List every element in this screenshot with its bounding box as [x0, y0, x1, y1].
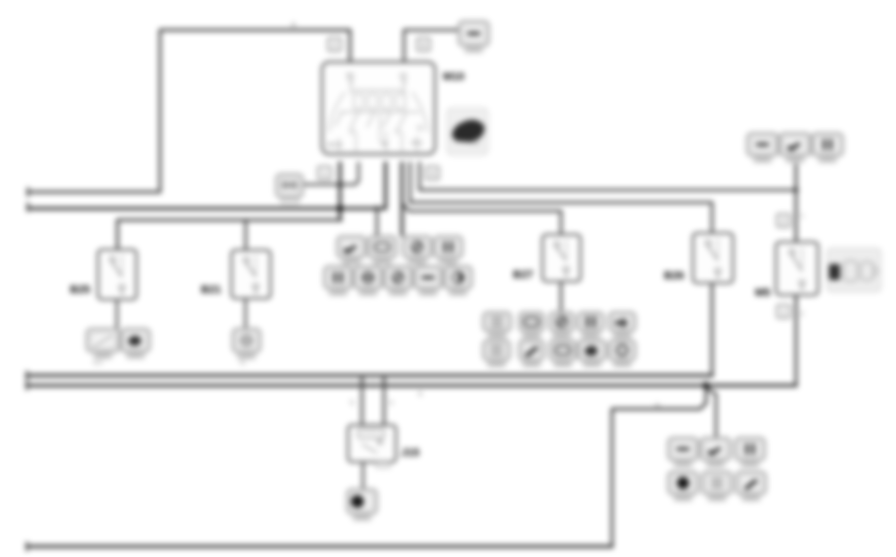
svg-text:B: B: [418, 391, 423, 398]
diagram ref icon B1: [324, 266, 352, 296]
connector icon C24: [276, 174, 303, 204]
switch B25: [98, 250, 137, 300]
svg-text:5: 5: [350, 400, 354, 407]
wire: ground return loop: [612, 388, 706, 547]
diagram ref icon A4: [434, 236, 463, 265]
wire: ECU pin drop x402 to icons row1: [401, 163, 404, 235]
connector pin square 4: [426, 167, 439, 180]
diagram ref icon B4: [414, 266, 442, 296]
diagram ref icon A1: [337, 236, 366, 265]
svg-text:B27: B27: [513, 269, 533, 281]
car position legend: [447, 108, 488, 155]
diagram ref icon D2: [519, 340, 544, 367]
diagram ref icon H3: [233, 329, 261, 360]
svg-text:M5: M5: [755, 287, 770, 299]
svg-text:6: 6: [421, 41, 426, 50]
wire: B26 down to bus A: [711, 283, 714, 376]
wire: M box down to bus B: [795, 295, 798, 386]
diagram ref icon D4: [578, 340, 606, 367]
wire: branch to B27: [402, 203, 561, 234]
diagram ref icon C5: [609, 312, 636, 338]
junction unit J15: [348, 425, 396, 462]
diagram ref icon F1: [668, 438, 698, 468]
svg-text:INT/A: INT/A: [327, 143, 342, 149]
svg-text:GV: GV: [93, 360, 103, 367]
svg-text:15: 15: [399, 73, 407, 80]
diagram ref icon H2: [121, 329, 150, 359]
svg-text:30: 30: [346, 73, 354, 80]
wire: ECU pin drop x340: [338, 163, 341, 220]
connector pin square M-bottom: [777, 305, 790, 318]
wire end tick: [26, 543, 28, 550]
diagram ref icon E2: [780, 133, 811, 163]
svg-text:A: A: [291, 20, 296, 29]
connector pin square 1: [318, 167, 331, 180]
wire: bus to J box pin 1: [361, 376, 364, 426]
location legend near M5: [827, 248, 881, 292]
wire: bus to J box pin 2: [383, 376, 386, 426]
junction: [337, 205, 344, 212]
connector pin square M-top: [777, 214, 790, 227]
diagram ref icon C4: [578, 312, 604, 338]
diagram ref icon C2: [519, 312, 544, 338]
svg-text:J15: J15: [401, 447, 419, 459]
diagram ref icon G1: [668, 472, 698, 502]
junction: [337, 182, 343, 188]
wire: to relay icon top: [404, 30, 458, 62]
diagram ref icon A2: [368, 236, 397, 265]
diagram ref icon C3: [550, 312, 575, 338]
relay icon reference: [459, 21, 490, 53]
wire: ECU pin to M feed bus y190: [420, 163, 798, 190]
junction: [702, 382, 709, 389]
svg-text:B21: B21: [201, 284, 221, 296]
wire end tick: [26, 372, 28, 379]
svg-text:1: 1: [781, 308, 786, 317]
diagram ref icon B5: [444, 266, 472, 296]
svg-text:M10: M10: [443, 71, 464, 83]
wire: ECU pin to connector icon: [302, 163, 359, 185]
switch B27: [543, 235, 581, 282]
wire: J box to ground: [362, 462, 364, 488]
wire: B21 to icon: [244, 298, 246, 329]
svg-text:B26: B26: [664, 270, 684, 282]
wire: bus A y375: [27, 374, 712, 377]
diagram ref icon G2: [702, 472, 732, 502]
diagram ref icon B2: [354, 266, 382, 296]
wire end tick: [26, 382, 28, 389]
ground point icon G12: [347, 489, 377, 521]
wire: battery feed top-left loop: [28, 30, 350, 192]
switch B26: [693, 233, 733, 283]
wire: bus branch down to icons row1: [376, 207, 379, 236]
motor assembly M5: [776, 242, 818, 295]
wire end tick: [27, 204, 29, 211]
svg-text:4: 4: [430, 170, 435, 179]
svg-text:30/1: 30/1: [411, 141, 423, 147]
junction: [793, 187, 798, 192]
wire: icons to M box: [795, 165, 798, 242]
svg-text:50: 50: [381, 142, 388, 148]
diagram ref icon D1: [483, 340, 510, 367]
wire: sub-bus y220 to B25/B21: [118, 220, 342, 250]
wire: bus B y385: [27, 384, 796, 387]
svg-text:2: 2: [800, 311, 804, 318]
wire: drop to B21: [244, 220, 247, 250]
svg-text:B25: B25: [70, 284, 90, 296]
control unit M10 (ignition switch unit): [322, 62, 435, 154]
wire: junction down to icon group: [706, 388, 716, 437]
wire: long left bus y208: [28, 163, 386, 209]
diagram ref icon H1: [87, 329, 120, 359]
wire: B27 to icon rows: [560, 281, 563, 311]
svg-text:2: 2: [332, 41, 337, 50]
diagram ref icon D5: [609, 340, 636, 367]
wire end tick: [27, 189, 29, 196]
diagram ref icon C1: [483, 312, 511, 338]
wire: ECU pin to B26: [410, 163, 712, 233]
diagram ref icon F3: [735, 438, 765, 468]
diagram ref icon E3: [812, 133, 843, 163]
diagram ref icon F2: [701, 438, 731, 468]
svg-text:1: 1: [800, 213, 804, 220]
svg-text:1: 1: [322, 170, 327, 179]
wire: bottom ground bus: [27, 545, 612, 548]
diagram ref icon E1: [747, 133, 778, 163]
connector pin square 2: [328, 38, 341, 51]
caption tab under J15: [376, 463, 390, 469]
svg-text:N: N: [240, 360, 245, 367]
switch B21: [232, 250, 271, 299]
connector pin square 6: [417, 38, 430, 51]
svg-text:N: N: [655, 403, 660, 410]
diagram ref icon G3: [736, 472, 766, 502]
diagram ref icon D3: [550, 340, 577, 367]
svg-text:2: 2: [781, 217, 786, 226]
diagram ref icon A3: [403, 236, 432, 265]
diagram ref icon B3: [384, 266, 412, 296]
svg-text:3: 3: [389, 400, 393, 407]
wire: B25 to icons: [116, 299, 118, 329]
